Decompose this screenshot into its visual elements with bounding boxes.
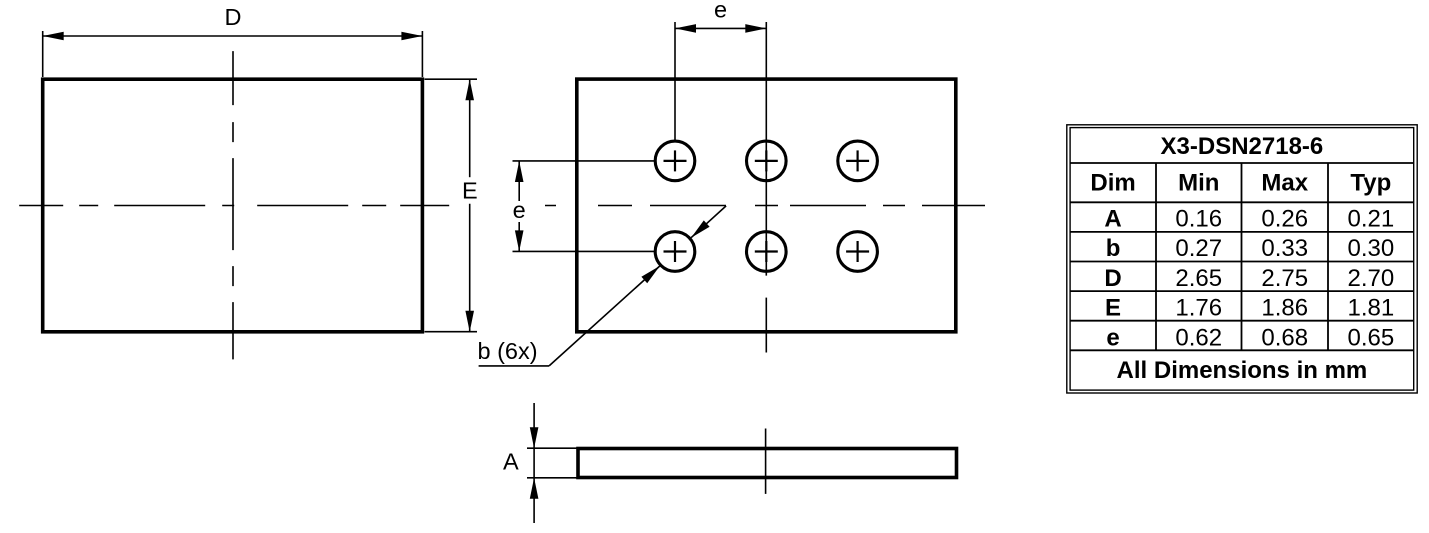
svg-text:X3-DSN2718-6: X3-DSN2718-6 <box>1161 133 1324 160</box>
svg-text:e: e <box>714 0 727 23</box>
svg-text:0.33: 0.33 <box>1261 235 1308 262</box>
svg-text:1.86: 1.86 <box>1261 295 1308 322</box>
svg-text:2.65: 2.65 <box>1175 265 1222 292</box>
svg-text:0.16: 0.16 <box>1175 206 1222 233</box>
svg-text:e: e <box>513 197 526 223</box>
svg-text:1.76: 1.76 <box>1175 295 1222 322</box>
svg-text:Min: Min <box>1178 169 1219 196</box>
svg-text:E: E <box>462 177 478 203</box>
svg-text:e: e <box>1106 324 1119 351</box>
svg-text:0.27: 0.27 <box>1175 235 1222 262</box>
svg-text:0.68: 0.68 <box>1261 324 1308 351</box>
svg-text:Max: Max <box>1261 169 1308 196</box>
svg-text:All Dimensions in mm: All Dimensions in mm <box>1117 357 1368 384</box>
svg-text:D: D <box>225 4 242 30</box>
svg-text:D: D <box>1104 265 1121 292</box>
svg-text:2.70: 2.70 <box>1347 265 1394 292</box>
svg-text:0.30: 0.30 <box>1347 235 1394 262</box>
svg-text:A: A <box>1104 206 1121 233</box>
svg-text:b: b <box>1106 235 1121 262</box>
svg-text:A: A <box>503 448 519 474</box>
svg-text:Dim: Dim <box>1090 169 1135 196</box>
svg-text:0.65: 0.65 <box>1347 324 1394 351</box>
svg-text:0.26: 0.26 <box>1261 206 1308 233</box>
svg-text:2.75: 2.75 <box>1261 265 1308 292</box>
svg-text:b (6x): b (6x) <box>478 338 538 364</box>
svg-text:1.81: 1.81 <box>1347 295 1394 322</box>
svg-text:Typ: Typ <box>1350 169 1391 196</box>
svg-text:0.62: 0.62 <box>1175 324 1222 351</box>
svg-text:0.21: 0.21 <box>1347 206 1394 233</box>
svg-text:E: E <box>1105 295 1121 322</box>
